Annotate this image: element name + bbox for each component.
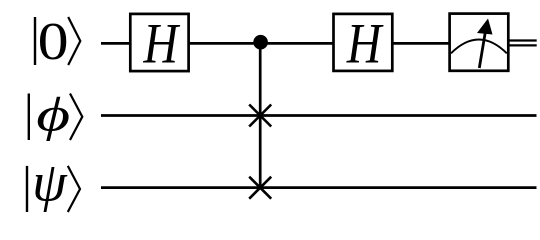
right angle bracket of |phi> <box>70 94 82 141</box>
classical double wire upper <box>509 39 537 41</box>
node q1 ket label |phi> <box>29 89 83 142</box>
swap cross on q2 <box>249 177 271 199</box>
node q2 ket label |psi> <box>27 152 80 212</box>
svg-text:H: H <box>143 13 181 76</box>
bar of |psi> <box>26 166 28 212</box>
wire q2 <box>101 186 537 189</box>
wire q0 segment from label to H1 <box>101 42 132 45</box>
meter arc <box>451 40 507 54</box>
gate H2 box <box>334 14 393 71</box>
right angle bracket of |0> <box>68 17 80 65</box>
wire q1 <box>101 114 537 117</box>
wire q0 segment H1 to H2 <box>187 42 335 45</box>
bar of |0> <box>34 17 36 65</box>
bar of |phi> <box>28 94 30 141</box>
glyph psi <box>32 152 68 212</box>
glyph phi <box>36 89 70 142</box>
classical double wire lower <box>509 44 537 46</box>
svg-text:0: 0 <box>38 13 69 71</box>
svg-text:ϕ: ϕ <box>36 89 70 142</box>
gate H1 box <box>130 14 188 71</box>
gate H2 letter <box>346 13 384 76</box>
meter arrowhead <box>477 19 493 35</box>
vertical control wire <box>259 43 262 188</box>
control dot <box>253 35 268 50</box>
svg-text:ψ: ψ <box>32 152 68 212</box>
meter needle <box>479 31 485 68</box>
swap cross on q1 <box>249 105 271 127</box>
glyph 0 <box>38 13 69 71</box>
measurement box <box>450 14 509 71</box>
svg-text:H: H <box>346 13 384 76</box>
right angle bracket of |psi> <box>68 166 80 212</box>
gate H1 letter <box>143 13 181 76</box>
node q0 ket label |0> <box>35 13 80 71</box>
wire q0 segment H2 to meter <box>391 42 451 45</box>
